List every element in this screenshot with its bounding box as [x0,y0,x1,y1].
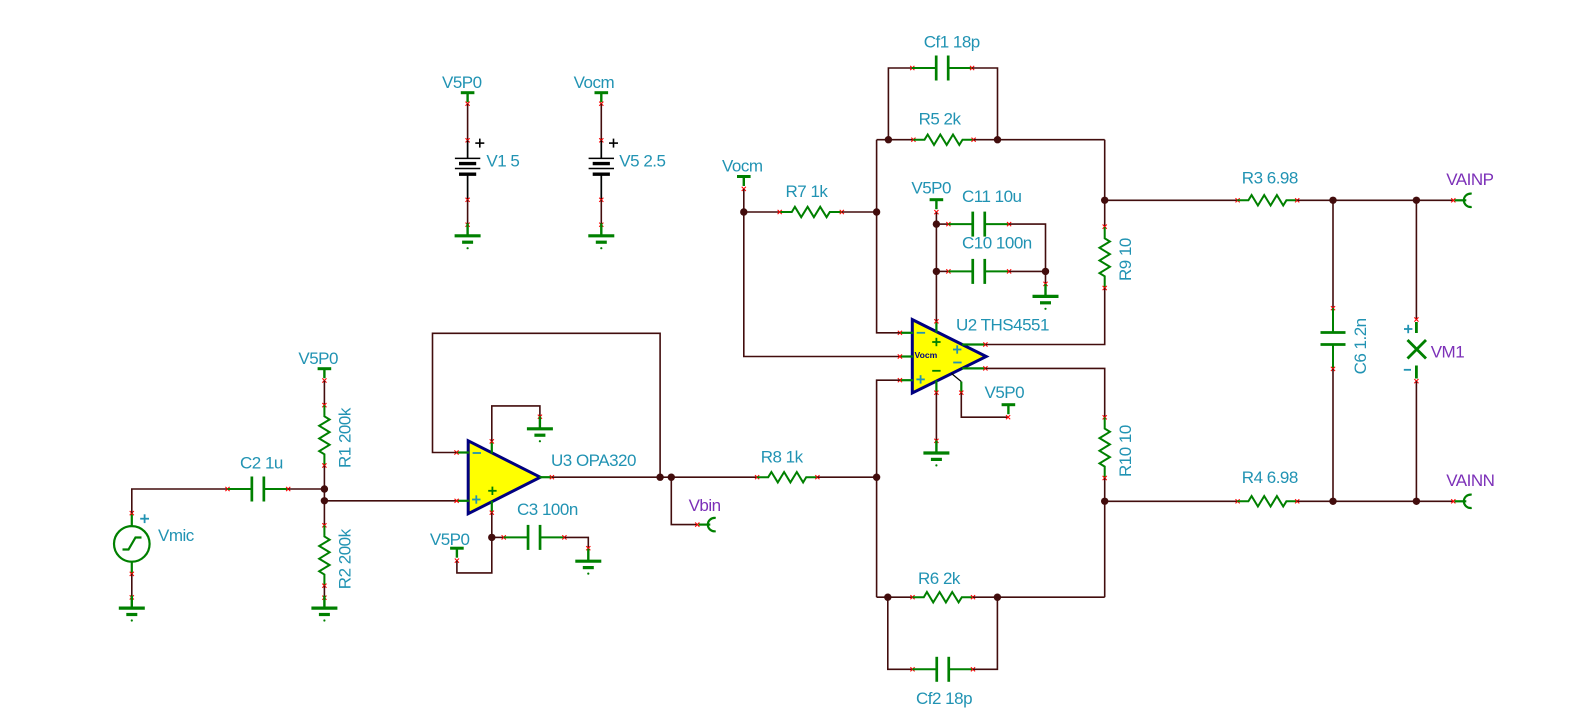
minus sign VM1 [1404,369,1411,371]
wire R8 to U2 +in net [817,476,876,478]
plus sign U3 positive supply [488,487,496,495]
pin x C6 bottom [1331,367,1335,371]
pin x U2 bottom supply [934,391,938,395]
wire top box to R5 [877,139,914,141]
pin x R8 left [755,475,759,479]
junction Cf1 right / R5 line [994,136,1001,143]
op-amp U3 OPA320 body [468,441,540,514]
wire Cf1 right branch [972,68,997,140]
svg-text:R1 200k: R1 200k [336,407,355,468]
i/o terminal VAINN [1455,495,1472,508]
pin x R6 right [971,595,975,599]
wire junction to C10 [936,270,948,272]
svg-text:C3 100n: C3 100n [517,500,578,519]
pin x ground (U2) [934,439,938,443]
svg-text:V5P0: V5P0 [298,349,338,368]
svg-text:C10 100n: C10 100n [962,234,1032,253]
wire VM1 bottom [1415,381,1417,501]
pin x Vbin terminal [695,523,699,527]
junction V5P0 / C11 [933,220,940,227]
wire R10 to R4 line [1104,478,1106,501]
svg-text:C11 10u: C11 10u [962,187,1022,206]
pin x R1 label stem [322,378,326,382]
junction C6 top [1329,197,1336,204]
wire R5 to top box right [974,139,1105,141]
pin x R8 right [815,475,819,479]
pin x R9 bottom [1103,286,1107,290]
node V5P0 tag symbol (U2) [930,200,944,210]
svg-text:C6 1.2n: C6 1.2n [1351,318,1370,374]
junction Cf2 left / R6 line [884,594,891,601]
pin x U3 out [550,475,554,479]
pin x R4 right [1295,499,1299,503]
capacitor C6 [1321,308,1346,369]
wire R4 line left [1105,500,1238,502]
wire C2 to node [288,488,324,490]
wire R8 node / U2 +in [877,380,900,477]
pin x VM1 + [1414,317,1418,321]
pin x VAINP terminal [1451,198,1455,202]
svg-text:U3 OPA320: U3 OPA320 [551,451,636,470]
pin x C3 right [562,535,566,539]
svg-text:VAINP: VAINP [1446,170,1493,189]
pin x U2 top supply [934,319,938,323]
resistor R9 [1100,227,1110,287]
op-amp U2 PD pin lead [952,374,962,382]
pin x C6 top [1331,306,1335,310]
pin x U2 -in [898,331,902,335]
wire U2 bottom supply to ground [935,393,937,441]
wire junction to C11 [936,223,948,225]
svg-text:R7 1k: R7 1k [786,182,829,201]
wire top box right down to R9 [1104,140,1106,227]
pin x V5P0 tag (U2) [934,210,938,214]
pin x U3 +in [455,499,459,503]
pin x VAINN terminal [1451,499,1455,503]
resistor R5 [913,135,973,145]
wire C11 line to C10 line [935,224,937,271]
pin x U3 top pin [490,439,494,443]
pin x V5P0 tag (PD) [1006,415,1010,419]
svg-text:Cf2 18p: Cf2 18p [916,689,972,708]
capacitor Cf1 [912,56,973,81]
wire to ground (C10) [1045,271,1047,284]
i/o terminal Vbin [699,518,716,531]
svg-text:V5P0: V5P0 [985,383,1025,402]
capacitor C2 [228,477,289,502]
pin x C2 left [225,487,229,491]
wire V5 - to ground [600,200,602,225]
pin x U2 +in [898,378,902,382]
wire R4 to VAINN [1297,500,1453,502]
pin x R2 ground [322,596,326,600]
junction R4 line / R10 [1101,498,1108,505]
junction node C2/R1 [321,485,328,492]
pin x R4 left [1236,499,1240,503]
resistor R3 [1237,195,1297,205]
voltmeter VM1 X symbol [1408,340,1427,359]
wire C3 to ground [564,537,588,548]
battery V1 [455,140,480,200]
pin x R9 top [1103,225,1107,229]
wire V5P0 tag to U3 junction [457,537,492,573]
pin x R7 left [778,210,782,214]
wire Vocm to U2 Vocm pin [744,212,900,357]
pin x V5 - [599,198,603,202]
capacitor C3 [504,525,565,550]
pin x Cf1 left [910,66,914,70]
junction R7 / -in net [873,208,880,215]
capacitor C10 [948,259,1009,284]
svg-text:R8 1k: R8 1k [761,447,804,466]
pin x R10 top [1103,415,1107,419]
svg-text:Cf1 18p: Cf1 18p [924,33,980,52]
minus sign U2 supply- [932,370,940,372]
pin x U3 -in [454,450,458,454]
minus sign U3 inverting input [473,452,481,454]
node V5P0 tag symbol (V1) [461,93,475,103]
pin x U2 PD pin [959,391,963,395]
pin x Cf2 right [971,667,975,671]
pin x U2 out+ [983,342,987,346]
svg-text:V1 5: V1 5 [486,152,519,171]
wire U3 bottom pin down [491,513,493,538]
svg-text:Vocm: Vocm [574,73,615,92]
pin x V1 - [466,198,470,202]
ground (V1) [455,223,481,242]
op-amp U2 THS4551 body [912,320,986,393]
pin x V5 ground [599,223,603,227]
wire junction to C3 [492,536,504,538]
pin x V1 + [466,138,470,142]
plus sign U2 supply+ [932,338,940,346]
plus sign U2 +in [916,375,924,383]
wire R6 line right [973,596,1105,598]
pin x U2 out- [983,366,987,370]
wire Vmic + to C2 [132,489,228,513]
svg-text:V5P0: V5P0 [442,73,482,92]
pin x Vmic + [130,511,134,515]
svg-text:VAINN: VAINN [1446,471,1494,490]
junction Cf2 right / R6 line [994,594,1001,601]
resistor R6 [913,592,974,602]
wire +in net down to R6 line [876,477,878,597]
wire R4 line down to R6 line [1104,501,1106,597]
capacitor Cf2 [912,657,973,682]
pin x Vocm tag stem [742,187,746,191]
junction R3 line / R9 net [1101,197,1108,204]
svg-text:V5P0: V5P0 [911,179,951,198]
pin x ground (C10) [1043,282,1047,286]
wire U3 top pin to ground [492,406,540,442]
pin x R3 left [1236,198,1240,202]
junction node to U3 [321,497,328,504]
resistor R10 [1100,417,1110,477]
wire R1 to node [323,466,325,490]
junction V5P0 / C10 [933,268,940,275]
i/o terminal VAINP [1455,194,1472,207]
wire V5P0 to U2 top supply pin [935,271,937,321]
svg-text:Vocm: Vocm [915,350,938,360]
svg-text:Vbin: Vbin [689,496,721,515]
wire U3 out to feedback junction [552,476,660,478]
resistor R8 [757,472,818,482]
wire Vmic - to ground [131,574,133,598]
voltmeter VM1 top lead [1415,322,1418,333]
node V5P0 tag symbol (R1) [318,369,332,379]
junction Vbin tap [668,474,675,481]
junction Cf1 left / R5 line [885,136,892,143]
junction VM1 top [1413,197,1420,204]
svg-text:VM1: VM1 [1431,342,1465,361]
node V5P0 tag symbol (PD) [1002,405,1016,415]
pin x U2 Vocm pin [898,354,902,358]
pin x R2 top [322,523,326,527]
pin x Cf1 right [970,66,974,70]
wire C6 bottom [1332,369,1334,501]
pin x ground (U3 top) [538,415,542,419]
wire Vocm tag to V5 + [600,104,602,141]
wire R6 line left [877,596,913,598]
ground (U3 top pin) [527,416,553,435]
wire V1 - to ground [467,200,469,225]
battery V5 [589,140,614,200]
wire C6 top [1332,200,1334,308]
plus sign VM1 [1404,325,1412,333]
svg-text:R6 2k: R6 2k [918,569,961,588]
capacitor C11 [948,212,1009,237]
node Vocm tag symbol (R7) [737,177,751,187]
pin x C10 left [946,269,950,273]
pin x V1 ground [466,223,470,227]
wire U3 feedback loop [433,333,661,477]
resistor R7 [781,207,842,217]
pin x R1 top [322,403,326,407]
plus sign Vmic [140,514,149,523]
source Vmic [114,513,150,574]
pin x V5 label stem [599,102,603,106]
svg-text:C2 1u: C2 1u [240,454,283,473]
pin x VM1 - [1414,379,1418,383]
pin x C11 left [946,222,950,226]
wire node to R2 [323,501,325,526]
op-amp U2 pin stubs [900,321,986,392]
plus sign U3 non-inverting input [472,495,480,503]
wire R2 to ground [323,586,325,598]
pin x C10 right [1007,269,1011,273]
pin x R5 left [911,138,915,142]
svg-text:R9 10: R9 10 [1116,238,1135,281]
wire node Vbin to R8 [671,476,757,478]
svg-text:Vocm: Vocm [722,156,763,175]
pin x C11 right [1007,222,1011,226]
svg-text:R2 200k: R2 200k [336,528,355,589]
junction C6 bottom [1329,498,1336,505]
wire junction to R7 [744,211,780,213]
junction C11/C10 ground net [1042,268,1049,275]
pin x R5 right [972,138,976,142]
junction Vocm / R7 [740,208,747,215]
wire C10 right [1009,270,1045,272]
ground (Vmic) [119,596,145,615]
junction U3 bottom / C3 / V5P0 [488,534,495,541]
minus sign U2 out- [953,362,961,364]
wire V5P0 tag to C11 line [935,212,937,224]
svg-text:V5 2.5: V5 2.5 [619,152,665,171]
wire Vocm tag to junction [743,189,745,212]
svg-text:R5 2k: R5 2k [919,110,962,129]
wire node to node2 [323,489,325,501]
wire V5P0 tag to V1 + [467,104,469,141]
svg-text:R10 10: R10 10 [1116,425,1135,477]
pin x C3 left [502,535,506,539]
wire VM1 top [1415,200,1417,319]
node Vocm tag symbol (V5) [595,93,609,103]
svg-text:U2 THS4551: U2 THS4551 [956,316,1049,335]
junction R8 / +in net [873,474,880,481]
pin x ground (C3) [586,546,590,550]
svg-text:R4 6.98: R4 6.98 [1242,468,1298,487]
pin x C2 right [286,487,290,491]
resistor R2 [319,525,329,585]
ground (C10/C11) [1033,284,1059,303]
ground (V5) [588,223,614,242]
junction U3 out / feedback [656,474,663,481]
wire node to U3 +in [324,500,456,502]
resistor R1 [319,405,329,465]
resistor R4 [1237,496,1297,506]
ground (C3) [575,549,601,568]
pin x Vmic ground [130,595,134,599]
pin x Cf2 left [910,667,914,671]
pin x R10 bottom [1103,476,1107,480]
svg-text:Vmic: Vmic [158,526,195,545]
pin x Vmic - [130,572,134,576]
wire R3 to VAINP [1297,199,1453,201]
op-amp U3 input/output pin stubs [457,441,552,512]
ground (R2) [311,596,337,615]
node V5P0 tag symbol (U3) [450,548,464,558]
ground (U2) [923,441,949,460]
wire V5P0 tag to R1 [323,381,325,406]
junction VM1 bottom [1413,498,1420,505]
pin x R7 right [840,210,844,214]
wire to Vbin terminal [671,477,697,524]
wire C11 right down [1009,224,1045,271]
plus sign U2 out+ [953,345,961,353]
wire R9 to U2 out+ [985,288,1104,345]
pin x V5 + [599,138,603,142]
wire Cf2 right branch [973,597,997,669]
wire top box left / U2 -in [877,140,900,333]
wire junction to junction Vbin [660,476,671,478]
pin x R1 bottom [322,463,326,467]
pin x U3 bottom pin [490,511,494,515]
minus sign U2 -in [917,332,925,334]
wire R3 line left [1105,199,1238,201]
pin x V5P0 tag (U3) [455,559,459,563]
wire U2 out- to R10 [985,368,1104,417]
svg-text:R3 6.98: R3 6.98 [1242,169,1298,188]
wire Cf1 left branch [888,68,912,140]
pin x R3 right [1295,198,1299,202]
svg-text:V5P0: V5P0 [430,530,470,549]
pin x V1 label stem [466,102,470,106]
pin x R6 left [910,595,914,599]
pin x R2 bottom [322,584,326,588]
voltmeter VM1 bottom lead [1415,366,1418,379]
wire U2 PD to V5P0 tag [961,393,1008,418]
source Vmic waveform glyph [123,538,142,550]
wire R7 to top box net [842,211,877,213]
wire Cf2 left branch [888,597,913,669]
